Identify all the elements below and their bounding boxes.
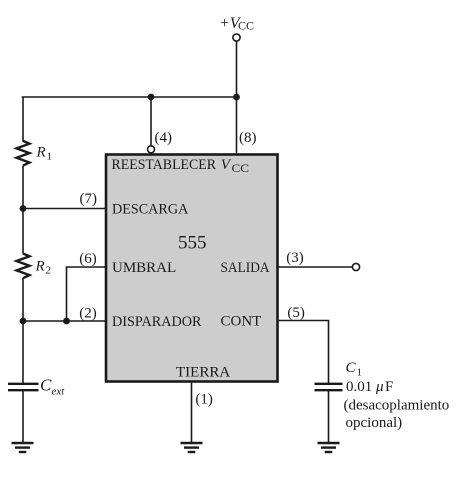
wire from R1 to node at pin 7 bbox=[22, 166, 24, 209]
power +VCC label bbox=[219, 15, 254, 33]
IC U1 555 timer body bbox=[106, 155, 278, 382]
svg-text:0.01: 0.01 bbox=[346, 379, 372, 395]
ground (center, below pin 1) bbox=[181, 443, 203, 452]
wire pin 1 from TIERRA down to ground bbox=[191, 382, 193, 443]
svg-text:DISPARADOR: DISPARADOR bbox=[112, 314, 202, 330]
svg-text:CC: CC bbox=[238, 19, 254, 33]
svg-text:C: C bbox=[346, 360, 357, 376]
note label desacoplamiento opcional bbox=[344, 398, 450, 432]
wire from C1 to ground bbox=[328, 390, 330, 443]
wire from R2 to node at pin 2 bbox=[22, 278, 24, 321]
label R1 bbox=[36, 145, 53, 163]
svg-text:C: C bbox=[40, 376, 52, 395]
resistor R2 bbox=[17, 254, 30, 279]
svg-text:(desacoplamiento: (desacoplamiento bbox=[344, 398, 450, 414]
svg-text:2: 2 bbox=[46, 265, 52, 277]
svg-text:(5): (5) bbox=[287, 305, 305, 321]
ground (left, below Cext) bbox=[12, 443, 34, 452]
svg-text:UMBRAL: UMBRAL bbox=[112, 260, 176, 276]
node junction at pin 7 wire bbox=[20, 205, 27, 212]
node junction on rail above pin 4 bbox=[148, 94, 155, 101]
svg-text:F: F bbox=[385, 379, 393, 395]
svg-text:(2): (2) bbox=[79, 306, 97, 322]
svg-text:SALIDA: SALIDA bbox=[221, 260, 270, 276]
power +VCC terminal circle bbox=[233, 34, 240, 41]
pin 4 open circle connector bbox=[148, 146, 155, 153]
svg-text:DESCARGA: DESCARGA bbox=[112, 202, 188, 218]
label R2 bbox=[35, 259, 52, 277]
svg-text:R: R bbox=[36, 145, 46, 161]
svg-text:(7): (7) bbox=[80, 191, 98, 207]
svg-text:ext: ext bbox=[52, 386, 66, 398]
wire from +VCC terminal down to pin 8 bbox=[236, 41, 238, 154]
value label 0.01 uF bbox=[346, 379, 393, 395]
capacitor C1 bbox=[315, 384, 343, 390]
svg-text:CONT: CONT bbox=[221, 314, 262, 330]
wire pin 7 horizontal to DESCARGA bbox=[23, 208, 106, 210]
wire pin 2 horizontal to DISPARADOR bbox=[23, 320, 106, 322]
wire pin 5 horizontal then down to C1 bbox=[278, 321, 329, 384]
wire top horizontal rail bbox=[22, 96, 237, 98]
wire left vertical from rail to R1 bbox=[22, 97, 24, 142]
wire pin 3 output horizontal bbox=[278, 266, 353, 268]
wire from node to R2 bbox=[22, 209, 24, 254]
svg-text:μ: μ bbox=[375, 379, 384, 395]
svg-text:1: 1 bbox=[357, 367, 363, 379]
svg-text:(6): (6) bbox=[79, 251, 97, 267]
svg-text:(1): (1) bbox=[195, 392, 213, 408]
wire from Cext to ground bbox=[22, 390, 24, 443]
U1 label REESTABLECER VCC bbox=[112, 157, 250, 175]
wire vertical threshold branch bbox=[66, 267, 68, 322]
wire pin 6 horizontal to UMBRAL bbox=[66, 266, 106, 268]
resistor R1 bbox=[17, 141, 30, 166]
svg-text:R: R bbox=[35, 259, 45, 275]
capacitor Cext bbox=[8, 384, 39, 390]
svg-text:CC: CC bbox=[232, 161, 250, 175]
node junction at pin 2 left bbox=[20, 318, 27, 325]
svg-text:(8): (8) bbox=[239, 130, 257, 146]
svg-text:REESTABLECER: REESTABLECER bbox=[112, 157, 217, 173]
label Cext bbox=[40, 376, 65, 398]
ground (right, below C1) bbox=[318, 443, 340, 452]
pin 3 open circle terminal bbox=[352, 263, 359, 270]
svg-text:555: 555 bbox=[178, 233, 207, 254]
svg-text:1: 1 bbox=[47, 151, 53, 163]
svg-text:(4): (4) bbox=[155, 130, 173, 146]
wire from pin 2 node down to Cext bbox=[22, 321, 24, 383]
label C1 bbox=[346, 360, 363, 379]
node junction on rail at VCC wire bbox=[233, 94, 240, 101]
node junction where threshold wire meets trigger wire bbox=[63, 318, 70, 325]
svg-text:(3): (3) bbox=[286, 250, 304, 266]
svg-text:TIERRA: TIERRA bbox=[176, 365, 230, 381]
wire pin 4 vertical from rail to reset circle bbox=[150, 97, 152, 146]
svg-text:opcional): opcional) bbox=[346, 415, 403, 431]
